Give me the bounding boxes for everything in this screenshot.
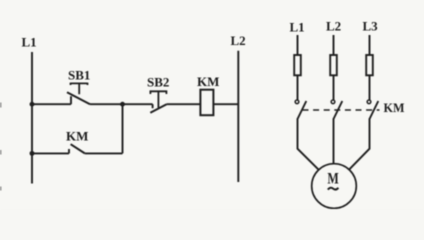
pushbutton SB2 (NO start button) — [147, 75, 169, 113]
wire L1 to SB1 — [32, 103, 71, 105]
fuse FU1 — [294, 55, 301, 75]
auxiliary holding contact KM (NO) — [66, 128, 88, 153]
wire SB1 to junction node — [90, 103, 123, 105]
svg-text:KM: KM — [66, 128, 88, 143]
wire contact 1 to motor — [298, 119, 319, 170]
wire L1 drop to fuse — [297, 35, 299, 55]
wire fuse to main contact 2 — [333, 76, 335, 101]
junction on L1 at holding branch — [30, 151, 35, 156]
svg-text:M: M — [327, 171, 339, 188]
wire L2 drop to fuse — [333, 35, 335, 55]
wire junction node to SB2 — [123, 103, 153, 105]
motor M — [312, 164, 357, 209]
svg-text:SB2: SB2 — [147, 75, 169, 90]
wire contact 3 to motor — [349, 119, 370, 170]
scan artifact marks at left margin — [0, 103, 2, 191]
svg-text:L1: L1 — [290, 20, 305, 35]
contactor coil KM — [197, 74, 219, 115]
wire L1 to holding contact KM — [32, 152, 69, 154]
wire branch corner up to junction node — [122, 104, 124, 153]
wire L1 vertical bus — [31, 52, 33, 184]
main contact KM pole 1 — [295, 100, 306, 119]
main contact KM pole 2 — [331, 100, 342, 119]
main contact KM pole 3 — [367, 100, 378, 119]
wire fuse to main contact 1 — [297, 76, 299, 101]
wire SB2 to coil KM — [167, 103, 201, 105]
wire coil KM to L2 — [213, 103, 238, 105]
wire L3 drop to fuse — [369, 35, 371, 55]
wire fuse to main contact 3 — [369, 76, 371, 101]
svg-text:KM: KM — [384, 101, 405, 115]
pushbutton SB1 (NC stop button) — [67, 68, 90, 105]
wire holding contact to branch corner — [85, 152, 123, 154]
svg-text:L3: L3 — [363, 18, 379, 33]
mechanical linkage (dashed) — [303, 109, 380, 111]
svg-text:L1: L1 — [22, 34, 37, 49]
fuse FU3 — [366, 55, 373, 75]
svg-text:KM: KM — [197, 74, 219, 89]
junction on L1 at main rung — [30, 102, 35, 107]
wire L2 vertical bus — [237, 51, 239, 182]
svg-text:L2: L2 — [326, 18, 341, 33]
svg-text:L2: L2 — [231, 33, 246, 48]
wire contact 2 to motor — [333, 119, 335, 165]
svg-text:SB1: SB1 — [68, 68, 90, 83]
fuse FU2 — [330, 55, 337, 75]
junction at SB1/SB2 node — [120, 102, 125, 107]
